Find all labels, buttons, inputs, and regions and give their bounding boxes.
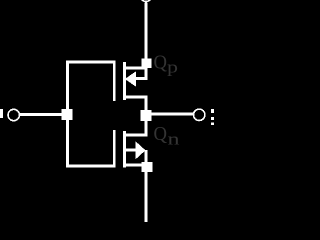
svg-text:p: p (167, 57, 178, 76)
label fragment at right edge (dash 1) (211, 109, 214, 113)
wire: output node down to Q_n drain (144, 121, 147, 137)
terminal circle at top (VDD, clipped) (140, 0, 151, 2)
label fragment at right edge (dash 2) (211, 117, 214, 120)
Q_p body arrow (points left) (125, 71, 136, 86)
node: input junction square (62, 109, 73, 120)
wire: input to gate junction (20, 113, 66, 116)
transistor Q_n (NMOS) gate bar (113, 130, 116, 167)
wire: gate loop top horizontal (66, 61, 116, 64)
svg-text:n: n (168, 130, 181, 149)
Q_n body arrow (points right) (136, 141, 146, 159)
label fragment at left edge (0, 109, 3, 118)
transistor Q_p (PMOS) gate bar (113, 61, 116, 102)
svg-text:Q: Q (154, 123, 168, 145)
node: output junction square (140, 110, 151, 121)
Q_n drain stub (125, 134, 148, 137)
Q_n source stub (125, 163, 143, 166)
Q_p drain stub (125, 95, 148, 98)
wire: VSS rail to bottom edge (144, 172, 147, 222)
transistor Q_n channel line (123, 131, 126, 168)
Q_p source stub (125, 67, 148, 70)
wire: gate loop bottom horizontal (66, 164, 116, 167)
wire: VDD rail from top terminal (145, 3, 148, 60)
wire: Q_p drain down to output node (144, 96, 147, 111)
label fragment at right edge (dash 3) (211, 123, 214, 126)
output terminal circle (vO) (194, 109, 205, 120)
wire: output node to output terminal (151, 113, 193, 116)
svg-text:Q: Q (154, 51, 168, 73)
node: Q_n source square (142, 162, 153, 172)
node: Q_p source square (142, 59, 152, 69)
wire: gate loop vertical (66, 61, 69, 168)
transistor Q_p channel line (123, 62, 126, 100)
wire: source square down to body stub (144, 68, 147, 80)
wire: body riser down to source square (144, 150, 147, 163)
input terminal circle (vI) (8, 109, 19, 120)
Q_p body stub (135, 77, 148, 80)
Q_n body stub (125, 149, 136, 152)
